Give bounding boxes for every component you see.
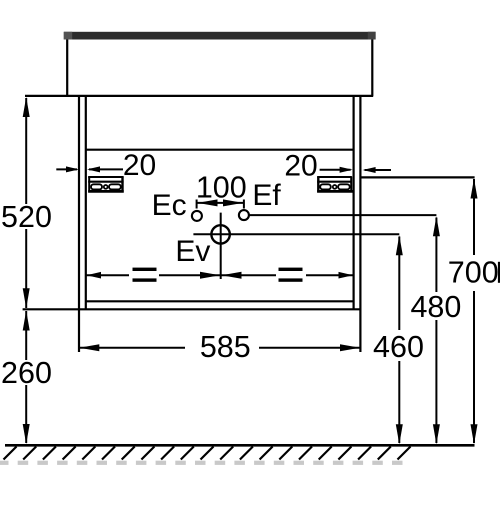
svg-text:Ef: Ef bbox=[252, 179, 281, 212]
svg-text:100: 100 bbox=[196, 171, 247, 205]
svg-text:480: 480 bbox=[410, 290, 461, 324]
svg-text:585: 585 bbox=[200, 330, 251, 364]
svg-text:Ev: Ev bbox=[175, 235, 210, 268]
svg-text:Ec: Ec bbox=[152, 189, 187, 222]
svg-text:20: 20 bbox=[123, 149, 156, 182]
svg-text:260: 260 bbox=[1, 356, 52, 390]
svg-text:700: 700 bbox=[448, 256, 499, 290]
svg-text:460: 460 bbox=[373, 330, 424, 364]
svg-text:520: 520 bbox=[1, 200, 52, 234]
svg-text:20: 20 bbox=[284, 150, 317, 183]
